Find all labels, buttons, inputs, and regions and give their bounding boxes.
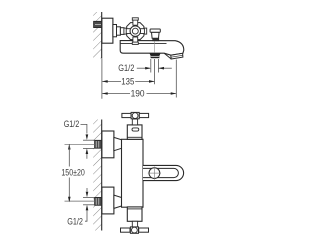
- wall line (side view): [101, 12, 103, 58]
- bottom collar (plan view): [127, 207, 142, 221]
- bottom handle stem (plan view): [132, 221, 137, 227]
- spout outer outline (plan view): [143, 165, 184, 180]
- label G1/2 bottom inlet: [67, 188, 94, 226]
- dimension 190: [102, 89, 176, 99]
- top collar (plan view): [127, 125, 142, 139]
- threaded inlet nipple top (plan view): [95, 140, 102, 148]
- cross handle octagon (side view): [127, 23, 144, 40]
- handle hub circles (side view): [130, 26, 141, 36]
- centre line through spout at outlet (side view): [154, 41, 156, 53]
- cartridge cap (side view): [117, 27, 121, 35]
- wall hatching (side view): [93, 12, 102, 58]
- diverter knob (side view): [150, 29, 160, 41]
- wall hatching (plan view): [93, 120, 102, 231]
- svg-text:G1/2: G1/2: [64, 119, 80, 129]
- shower hose outlet (side view): [150, 53, 160, 58]
- wall flange bottom (plan view): [102, 187, 114, 214]
- spout underside to aerator (side view): [164, 53, 171, 59]
- threaded wall nipple (side view): [94, 21, 102, 27]
- aerator at spout tip (side view): [171, 53, 183, 59]
- dimension 135: [102, 77, 155, 87]
- mixer body (plan view): [122, 139, 144, 207]
- top handle stem (plan view): [132, 119, 137, 125]
- extension line from wall: [101, 59, 103, 99]
- mixer body and spout outline (side view): [120, 41, 184, 56]
- centre line top inlet: [65, 143, 96, 145]
- handle spoke down (side view): [132, 37, 138, 44]
- wall flange escutcheon (side view): [102, 18, 113, 43]
- spout inner line (plan view): [143, 168, 178, 177]
- handle spoke up (side view): [132, 18, 138, 25]
- svg-text:190: 190: [131, 89, 145, 99]
- wall line (plan view): [101, 120, 103, 231]
- svg-text:G1/2: G1/2: [67, 216, 83, 226]
- spout barrel inner line (side view): [121, 43, 167, 45]
- svg-text:G1/2: G1/2: [118, 63, 134, 73]
- extension line from spout tip: [175, 60, 177, 98]
- label G1/2 top inlet: [64, 119, 95, 159]
- extension lines from shower outlet: [151, 59, 159, 84]
- dimension 150±20: [61, 144, 84, 202]
- diverter knob circle (plan view): [148, 167, 161, 180]
- union taper top (plan view): [114, 137, 122, 150]
- svg-text:150±20: 150±20: [61, 168, 84, 178]
- handle hub adapter (side view): [120, 28, 124, 35]
- top cross handle bar (plan view): [122, 112, 149, 118]
- handle spoke right (side view): [139, 28, 147, 34]
- svg-text:135: 135: [121, 77, 134, 87]
- threaded inlet nipple bottom (plan view): [95, 197, 102, 205]
- union nut taper (side view): [113, 25, 117, 37]
- bottom cross handle bar (plan view): [121, 227, 149, 233]
- handle spoke left (side view): [124, 28, 132, 34]
- union taper bottom (plan view): [114, 195, 122, 208]
- wall flange top (plan view): [102, 131, 114, 158]
- centre line bottom inlet: [65, 200, 96, 202]
- label G1/2 with arrow (shower outlet): [118, 63, 172, 73]
